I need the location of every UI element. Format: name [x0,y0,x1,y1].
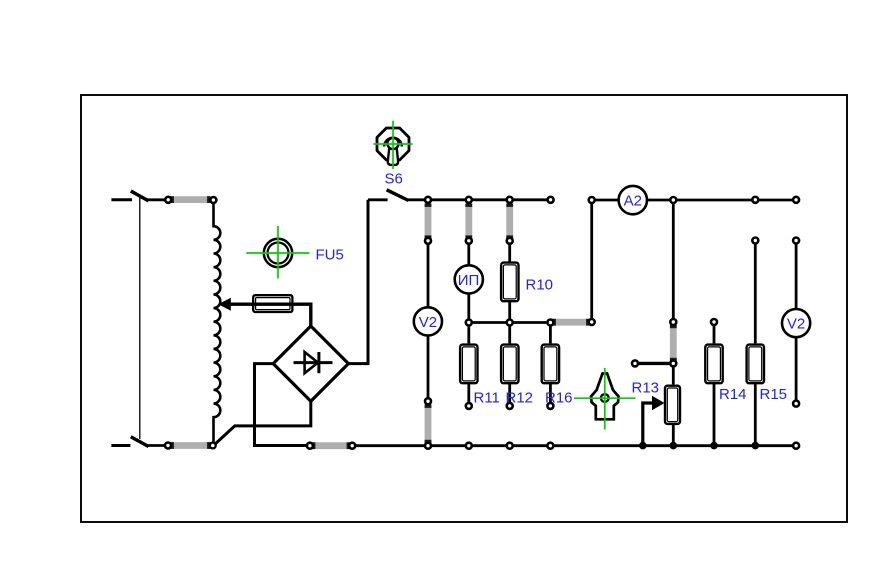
arrow head of transformer tap [218,298,231,311]
wire bottom-left to transformer [146,444,214,447]
node junction row right [589,319,595,325]
terminal R12 bottom [507,403,513,409]
terminal V2 right top [793,238,799,244]
svg-text:R16: R16 [545,390,573,407]
resistor R10 [501,263,518,302]
meter V2 middle [414,307,442,335]
switch blade bottom-left [131,437,149,447]
junction transformer bottom [210,443,216,449]
junction bottom rail R14 [710,442,718,450]
fuse holder FU5 symbol [246,226,309,279]
terminal bottom rail left [307,443,313,449]
node bottom rail R11 [466,443,472,449]
switch S mechanical link line [139,195,141,439]
wire R10 bottom [508,302,511,323]
resistor R16 [542,345,559,384]
jumper wire gray V2 top [425,204,432,239]
node R13 column jumper bottom [670,360,676,366]
top rail right: A2 left lead [592,199,619,202]
node V2 bottom [425,398,431,404]
node top rail IP [466,197,472,203]
top rail segment with sockets [407,198,551,201]
node junction row R12 [507,320,513,326]
wire R16 leads [549,323,552,344]
wire bridge left corner to bottom rail terminal [255,364,309,446]
terminal R13 stub left [632,360,638,366]
resistor R11 [460,345,477,384]
terminal V2 right bottom [793,401,799,407]
node top-left switch [165,197,171,203]
wire IP bottom [467,293,470,323]
terminal R16 bottom [547,403,553,409]
node top rail R10 [507,197,513,203]
svg-text:R13: R13 [632,380,660,397]
svg-text:S6: S6 [385,171,403,188]
svg-text:V2: V2 [419,314,437,331]
node jumper end V2 [425,238,431,244]
wire IP column [467,200,470,266]
wire R11 leads [467,323,470,344]
terminal top rail right end [793,197,799,203]
node top rail right of A2 [670,197,676,203]
R13 wiper arrow wire [643,403,656,446]
wire R15 leads [754,241,757,344]
wire R13 column from top rail [672,200,675,363]
wire top-left stub [111,198,132,201]
wire junction row up to A2 [590,200,593,323]
knob symbol near R13 [574,368,636,430]
svg-text:R15: R15 [760,386,788,403]
R13 wiper arrow head [652,396,665,410]
top rail right of A2 [647,199,796,202]
junction bottom rail R13 [670,442,678,450]
jumper wire gray bottom rail [312,442,350,449]
fuse FU body [253,295,292,312]
bridge rectifier VD diamond [273,326,348,401]
wire R10 column [508,200,511,262]
jumper wire gray R13 column [670,325,677,361]
wire transformer bottom to bridge bottom corner [214,401,311,445]
wire bridge right corner to top rail [348,200,368,364]
border frame [81,95,847,522]
jumper wire gray R10 top [506,204,513,239]
svg-text:FU5: FU5 [316,246,344,263]
wire R13 to resistor and rail [672,363,675,384]
meter IP [455,265,483,293]
node R13 column top [670,319,676,325]
jumper wire gray bottom-left [171,442,211,449]
node bottom rail R16 [547,443,553,449]
transformer T1 winding [214,200,221,446]
potentiometer R13 [665,386,680,424]
node top rail left of A2 [589,197,595,203]
wire tap arrow to fuse to bridge top corner [227,304,311,326]
svg-text:R10: R10 [526,277,554,294]
node bottom-left switch [165,443,171,449]
switch blade top-left [131,191,149,201]
svg-text:A2: A2 [624,193,642,210]
svg-text:ИП: ИП [458,272,480,289]
wire R12 leads [508,323,511,344]
wire R13 top stub with terminal [637,362,674,365]
node top rail R15 [752,197,758,203]
wire R14 leads [713,322,716,343]
terminal top rail end [548,197,554,203]
meter A2 [619,186,647,214]
svg-text:V2: V2 [787,316,805,333]
toggle switch S6 symbol [374,121,413,169]
svg-text:R14: R14 [719,386,747,403]
jumper wire gray junction row [553,319,590,326]
terminal R14 top [711,319,717,325]
node junction row R16 [547,320,553,326]
terminal R15 top [752,238,758,244]
node bottom rail V2 [425,443,431,449]
diode inside bridge [294,352,333,373]
jumper wire gray V2 bottom [425,405,432,444]
node bottom rail jumper [349,443,355,449]
jumper wire gray top-left [171,196,211,203]
wire V2 bottom to rail [427,335,430,446]
wire bottom-left stub [111,444,130,447]
node bottom rail R12 [507,443,513,449]
node jumper end IP [466,238,472,244]
terminal R11 bottom [466,403,472,409]
wire V2 right leads [795,241,798,310]
junction row wire [469,321,592,324]
resistor R12 [501,345,518,384]
svg-text:R12: R12 [506,390,534,407]
resistor R14 [705,345,722,384]
node jumper end R10 [507,238,513,244]
node junction row R11 [466,320,472,326]
wire top-left to transformer [146,198,213,201]
jumper wire gray IP top [465,204,472,239]
node transformer top [210,197,216,203]
node top rail V2 [425,197,431,203]
top rail from bridge, stub before switch S6 [368,198,388,201]
meter V2 right [782,309,810,337]
junction bottom rail wiper [639,442,647,450]
resistor R15 [747,345,764,384]
junction bottom rail R15 [752,442,760,450]
svg-text:R11: R11 [474,390,500,407]
wire V2 column [427,200,430,308]
bottom rail right section [310,444,796,447]
terminal bottom rail right end [793,443,799,449]
switch S6 blade [387,190,409,201]
